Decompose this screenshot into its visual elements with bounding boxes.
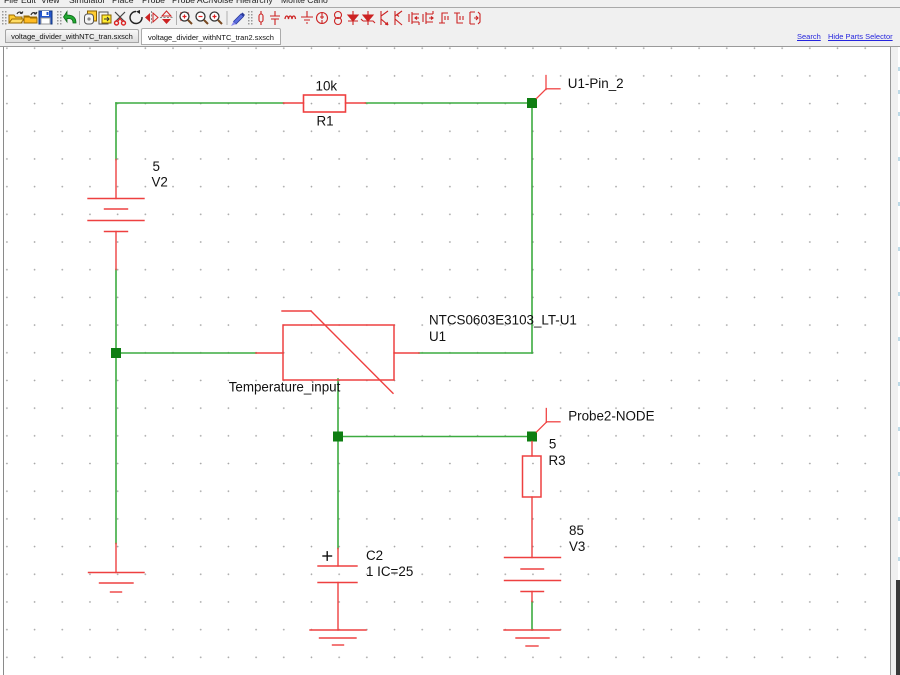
value label 1 IC=25 bbox=[366, 564, 413, 579]
resistor R1 bbox=[284, 95, 366, 112]
reference label U1 bbox=[429, 329, 446, 344]
wire V2 to node bbox=[115, 270, 117, 354]
wire thermistor bottom pin bbox=[337, 379, 339, 437]
voltage source V3 bbox=[505, 558, 561, 602]
document tab bar bbox=[0, 28, 900, 47]
svg-text:R3: R3 bbox=[549, 453, 566, 468]
junction node U1-Pin_2 bbox=[527, 98, 537, 108]
polarity plus mark C2 bbox=[323, 552, 332, 560]
svg-text:V3: V3 bbox=[569, 539, 585, 554]
resistor R3 bbox=[523, 442, 542, 558]
reference label C2 bbox=[366, 548, 383, 563]
node label Probe2-NODE bbox=[568, 408, 654, 423]
wire top-left horizontal bbox=[116, 102, 284, 104]
svg-text:R1: R1 bbox=[317, 113, 334, 128]
ground under V3 bbox=[504, 630, 560, 646]
wire left vertical to ground bbox=[115, 353, 117, 544]
wire node to C2 bbox=[337, 437, 339, 549]
junction node under thermistor bbox=[333, 432, 343, 442]
svg-text:U1-Pin_2: U1-Pin_2 bbox=[568, 76, 624, 91]
svg-text:Probe2-NODE: Probe2-NODE bbox=[568, 408, 654, 423]
junction node left bbox=[111, 348, 121, 358]
capacitor C2 bbox=[318, 549, 357, 631]
application menu bar (clipped) bbox=[0, 0, 900, 8]
wire node to R3 node bbox=[338, 436, 532, 438]
value label 10k bbox=[316, 79, 338, 94]
reference label R3 bbox=[549, 453, 566, 468]
pin label Temperature_input bbox=[229, 379, 341, 394]
node label U1-Pin_2 bbox=[568, 76, 624, 91]
value label 85 bbox=[569, 523, 584, 538]
svg-text:C2: C2 bbox=[366, 548, 383, 563]
ground left bbox=[89, 544, 145, 593]
svg-text:5: 5 bbox=[549, 437, 556, 452]
svg-text:5: 5 bbox=[153, 159, 160, 174]
wire right vertical to thermistor bbox=[531, 103, 533, 353]
wire left vertical top bbox=[115, 103, 117, 160]
wire V3 to ground bbox=[531, 602, 533, 631]
probe marker U1-Pin_2 bbox=[537, 76, 561, 99]
thermistor U1 bbox=[256, 311, 419, 393]
svg-text:Temperature_input: Temperature_input bbox=[229, 379, 341, 394]
junction node Probe2 bbox=[527, 432, 537, 442]
reference label R1 bbox=[317, 113, 334, 128]
svg-text:85: 85 bbox=[569, 523, 584, 538]
reference label V2 bbox=[152, 175, 168, 190]
wire thermistor left to node bbox=[116, 352, 256, 354]
toolbar bbox=[0, 8, 900, 28]
svg-text:V2: V2 bbox=[152, 175, 168, 190]
svg-text:10k: 10k bbox=[316, 79, 338, 94]
part label NTCS0603E3103_LT-U1 bbox=[429, 313, 577, 328]
svg-text:U1: U1 bbox=[429, 329, 446, 344]
value label 5 (V2) bbox=[153, 159, 160, 174]
probe marker Probe2-NODE bbox=[537, 409, 561, 433]
ground under C2 bbox=[310, 630, 366, 645]
svg-text:NTCS0603E3103_LT-U1: NTCS0603E3103_LT-U1 bbox=[429, 313, 577, 328]
wire top-right horizontal bbox=[366, 102, 533, 104]
svg-text:1 IC=25: 1 IC=25 bbox=[366, 564, 413, 579]
voltage source V2 bbox=[88, 160, 144, 270]
value label 5 (R3) bbox=[549, 437, 556, 452]
wire thermistor right to riser bbox=[419, 352, 532, 354]
reference label V3 bbox=[569, 539, 585, 554]
